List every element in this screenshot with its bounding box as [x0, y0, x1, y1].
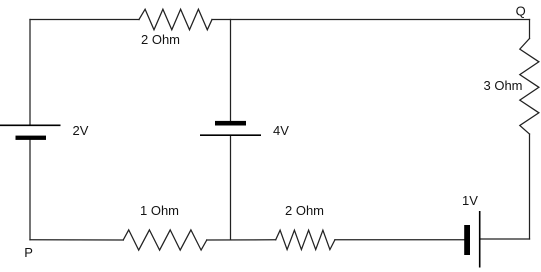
- battery 2V (left) positive plate: [0, 124, 61, 126]
- wire middle upper segment: [230, 20, 232, 121]
- wire right lower segment: [529, 134, 531, 239]
- wire top-left segment: [30, 19, 139, 21]
- svg-text:2 Ohm: 2 Ohm: [141, 32, 180, 47]
- battery 2V (left) negative plate: [16, 136, 47, 140]
- battery 1V (bottom right) negative plate: [464, 225, 470, 255]
- battery 4V (middle) positive plate: [200, 134, 261, 136]
- svg-text:P: P: [24, 245, 33, 260]
- wire middle lower segment: [230, 135, 232, 240]
- svg-text:3 Ohm: 3 Ohm: [484, 78, 523, 93]
- battery 1V (bottom right) positive plate: [479, 211, 481, 268]
- wire left lower segment: [29, 140, 31, 240]
- resistor 2 Ohm (top): [139, 9, 212, 30]
- wire bottom-right segment: [480, 238, 530, 240]
- svg-text:1 Ohm: 1 Ohm: [140, 203, 179, 218]
- svg-text:2V: 2V: [73, 123, 89, 138]
- wire bottom between resistors with middle junction: [207, 239, 276, 241]
- wire right upper segment: [529, 20, 531, 39]
- resistor 3 Ohm (right): [520, 39, 539, 135]
- svg-text:1V: 1V: [462, 193, 478, 208]
- svg-text:Q: Q: [516, 3, 526, 18]
- svg-text:4V: 4V: [273, 123, 289, 138]
- resistor 2 Ohm (bottom middle): [276, 230, 335, 249]
- battery 4V (middle) negative plate: [215, 121, 246, 126]
- svg-text:2 Ohm: 2 Ohm: [285, 203, 324, 218]
- wire bottom between battery 1V and resistor 2 Ohm: [335, 239, 464, 241]
- wire bottom-left segment: [30, 239, 123, 241]
- wire left upper segment: [29, 20, 31, 126]
- resistor 1 Ohm (bottom left): [123, 230, 207, 250]
- wire top-middle to top-right segment: [212, 19, 530, 21]
